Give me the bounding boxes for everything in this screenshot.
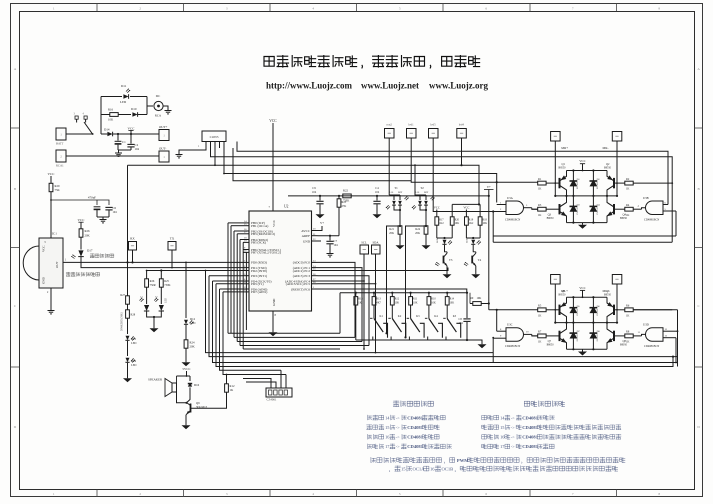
wire ML- to right node — [616, 284, 618, 323]
svg-text:R10: R10 — [431, 298, 436, 301]
connector MR+ box — [551, 132, 561, 142]
frame row ticks right — [695, 127, 704, 129]
rail y165 — [128, 165, 480, 204]
resistor R17 1K2 — [435, 217, 439, 225]
svg-text:15: 15 — [401, 466, 406, 471]
U3B pins — [663, 204, 668, 206]
svg-text:8: 8 — [658, 6, 660, 10]
svg-text:SPEAKER: SPEAKER — [148, 378, 163, 382]
sensor output T1 to bus — [387, 226, 401, 333]
svg-text:http://www.Luojz.com: http://www.Luojz.com — [266, 81, 352, 91]
IR LED pair 1 — [144, 305, 149, 311]
svg-text:CD4081BCN: CD4081BCN — [644, 345, 659, 348]
ground K row — [467, 340, 482, 342]
svg-text:OUT-: OUT- — [159, 147, 166, 151]
svg-text:PD3 (INT1): PD3 (INT1) — [251, 274, 267, 278]
bridge MR bottom rail — [567, 222, 608, 224]
diode D6 upper right — [592, 297, 594, 322]
svg-text:K4: K4 — [434, 315, 438, 318]
svg-text:CD4081: CD4081 — [522, 444, 539, 449]
svg-text:PD2 (INT0): PD2 (INT0) — [251, 269, 267, 273]
svg-text:CD4081: CD4081 — [407, 415, 424, 420]
svg-text:R12: R12 — [395, 298, 400, 301]
svg-text:D12: D12 — [190, 317, 196, 321]
bridge MR collector emitter stubs lower — [566, 196, 568, 203]
resistor R27 photoresistor — [127, 262, 129, 296]
svg-text:->: -> — [396, 425, 400, 430]
enable rail y182 to Q1 base — [411, 181, 538, 183]
title text (Chinese school name) — [264, 57, 274, 67]
note line new 4 — [482, 444, 487, 449]
resistor R24b 20K — [424, 226, 428, 234]
note line old 2 — [367, 425, 372, 430]
svg-text:10K: 10K — [431, 302, 436, 305]
wire led1 down to rail180 — [410, 138, 412, 181]
resistor R15 1K — [355, 293, 357, 296]
svg-text:R21: R21 — [389, 228, 394, 231]
resistor R26b 750R — [145, 279, 149, 287]
ground bridge ML — [582, 349, 584, 351]
svg-text:104: 104 — [459, 322, 464, 325]
resistor R20 10K — [451, 204, 453, 216]
resistor R2 1K — [625, 181, 633, 185]
svg-text:20K: 20K — [415, 232, 420, 235]
sensor output T2 to bus — [406, 226, 427, 337]
ground T2 — [425, 243, 427, 245]
svg-text:5VCC: 5VCC — [182, 367, 190, 371]
LED D18 — [466, 237, 480, 239]
lower bridge R6 right wire — [633, 309, 677, 311]
svg-text:->: -> — [396, 415, 400, 420]
wire AVCC V+ stub — [318, 226, 323, 231]
svg-text:DC: DC — [156, 94, 160, 98]
svg-text:(RESET) PC6: (RESET) PC6 — [291, 287, 310, 291]
phototransistor T3 — [443, 256, 445, 264]
wires DIP block up — [243, 379, 271, 389]
upper loop right vertical U3B pin5 — [675, 211, 677, 236]
K switch top rail — [340, 292, 467, 294]
svg-text:3: 3 — [226, 6, 228, 10]
wire PC4 PC5 to SCL SDA — [318, 280, 365, 282]
bus line y345 — [240, 345, 369, 347]
svg-text:5: 5 — [399, 492, 401, 496]
svg-text:T4: T4 — [478, 258, 482, 262]
svg-text:1K: 1K — [626, 314, 629, 317]
svg-text:C1: C1 — [122, 140, 126, 144]
U3D pin12 down — [674, 338, 676, 363]
svg-text:10K: 10K — [477, 297, 482, 300]
rail y180 — [233, 148, 411, 181]
bridge ML emitter collector stubs upper — [566, 297, 568, 303]
resistor R7 1K lower — [538, 334, 546, 338]
ground CON3 pin1 — [179, 148, 206, 152]
wire PC1 to nest — [318, 268, 363, 342]
svg-text:1K: 1K — [538, 188, 541, 191]
resistor R29 75K — [49, 183, 53, 191]
capacitor C7 104 — [329, 236, 331, 241]
diode D7 lower left — [572, 323, 574, 350]
ground DC jack — [163, 106, 168, 108]
svg-text:R26: R26 — [85, 229, 91, 233]
MCU GND pin8 bottom — [272, 311, 274, 330]
svg-text:1N4148: 1N4148 — [597, 207, 599, 215]
ground C7 — [329, 251, 331, 254]
IR LED pair 2 — [159, 305, 164, 311]
IC1 OUT pin wire — [63, 261, 243, 263]
svg-text:5: 5 — [399, 6, 401, 10]
svg-text:8: 8 — [658, 492, 660, 496]
svg-text:Q7: Q7 — [548, 340, 552, 343]
wire speaker loop — [176, 376, 178, 383]
svg-text:VCC: VCC — [272, 219, 276, 227]
svg-text:VCC: VCC — [78, 218, 86, 222]
svg-text:1K2: 1K2 — [439, 222, 444, 225]
svg-text:LED: LED — [120, 100, 127, 104]
lower right vertical x677 — [677, 310, 679, 367]
svg-text:PB1 (OC1A): PB1 (OC1A) — [251, 224, 268, 228]
svg-text:OUT+: OUT+ — [159, 125, 168, 129]
svg-text:CD4081: CD4081 — [522, 425, 539, 430]
svg-text:1N4148: 1N4148 — [597, 308, 599, 316]
resistor R12 1K base — [226, 375, 228, 385]
svg-text:OC1B: OC1B — [442, 466, 454, 471]
wire loop to DC jack — [147, 105, 153, 107]
bus line y341 — [237, 341, 362, 343]
svg-text:75K: 75K — [55, 188, 61, 192]
svg-text:1K: 1K — [358, 302, 361, 305]
svg-text:C4: C4 — [375, 186, 379, 190]
svg-text:2: 2 — [139, 492, 141, 496]
svg-text:B8550: B8550 — [559, 293, 567, 296]
bottom bus lines — [206, 271, 494, 353]
svg-text:VCC: VCC — [48, 172, 56, 176]
svg-text:RCA: RCA — [155, 114, 162, 118]
svg-text:CD4081: CD4081 — [407, 425, 424, 430]
svg-text:www.Luojz.net: www.Luojz.net — [361, 81, 419, 91]
svg-text:20K: 20K — [85, 234, 91, 238]
connector J1 battery — [56, 128, 66, 140]
svg-text:PWM: PWM — [457, 458, 469, 463]
svg-text:D11: D11 — [121, 84, 127, 88]
note line new 3 — [482, 435, 487, 439]
ground bridge MR — [582, 223, 584, 225]
wire PC2 to T3 — [318, 268, 449, 271]
diode D1 upper left — [572, 171, 574, 196]
svg-text:led4: led4 — [459, 123, 465, 127]
ground T4 — [475, 272, 477, 274]
switch S1 — [75, 116, 78, 119]
wire MCU GND pin22 — [318, 240, 322, 242]
svg-text:U3D: U3D — [643, 323, 650, 327]
resistor R14 10K — [446, 293, 448, 297]
wire speaker rail — [177, 375, 191, 377]
svg-text:B8550: B8550 — [604, 293, 612, 296]
wire D14 to OUT+ — [113, 133, 159, 135]
bus line y337 — [234, 336, 355, 338]
ground T3 — [446, 272, 448, 274]
resistor R12 10K — [391, 293, 393, 297]
svg-text:U3C: U3C — [507, 323, 513, 327]
svg-text:Q3: Q3 — [548, 213, 552, 216]
wire MR+ to left node — [554, 141, 556, 196]
label transmit diode Chinese — [90, 254, 94, 258]
svg-text:D15: D15 — [131, 337, 137, 341]
svg-text:CON3: CON3 — [210, 135, 219, 139]
svg-text:104: 104 — [334, 244, 339, 247]
svg-text:SDA: SDA — [372, 241, 379, 245]
note line new 1 — [482, 415, 487, 419]
resistor R5 1K — [538, 308, 546, 312]
svg-text:CD4081BCN: CD4081BCN — [644, 219, 659, 222]
note summary line 2 — [389, 470, 391, 472]
svg-text:LED: LED — [465, 238, 468, 243]
svg-text:GND: GND — [42, 276, 46, 284]
svg-text:T3: T3 — [449, 258, 453, 262]
svg-text:led1: led1 — [408, 123, 414, 127]
svg-text:BATT: BATT — [56, 142, 64, 146]
LED D17 receive indicator — [78, 250, 83, 256]
U3D pin13 stub to vertical — [668, 330, 678, 332]
note line old 3 — [367, 434, 371, 439]
DIP block CZ4061 — [266, 388, 292, 397]
ground IR pair — [153, 326, 155, 328]
svg-text:1N4148: 1N4148 — [577, 308, 579, 316]
svg-text:CD4081: CD4081 — [407, 435, 424, 440]
bridge MR mid rail — [555, 195, 617, 197]
svg-text:VCC: VCC — [269, 119, 277, 123]
capacitor C6 104 — [105, 206, 112, 208]
svg-text:R11: R11 — [413, 298, 418, 301]
svg-text:16: 16 — [430, 466, 435, 471]
capacitor C2 — [130, 134, 132, 144]
svg-text:1N4148: 1N4148 — [597, 181, 599, 189]
svg-text:1K: 1K — [626, 341, 629, 344]
svg-text:1N4148: 1N4148 — [597, 333, 599, 341]
ground Q9 — [185, 423, 187, 425]
svg-text:led5: led5 — [430, 123, 436, 127]
resistor R22 750K — [343, 194, 351, 198]
svg-text:104: 104 — [375, 191, 380, 194]
bus verticals PB6 PB7 osc — [243, 250, 246, 353]
svg-text:U2: U2 — [284, 205, 289, 209]
wire TX down to PD1 — [171, 250, 173, 268]
svg-text:470uF: 470uF — [88, 196, 96, 200]
connector MR- box — [612, 132, 622, 142]
svg-text:D14: D14 — [104, 128, 110, 132]
resistor R3 1K lower — [538, 207, 546, 211]
svg-text:50WK5B51(50K): 50WK5B51(50K) — [121, 312, 124, 331]
svg-text:R25: R25 — [164, 280, 169, 283]
svg-text:10K: 10K — [395, 302, 400, 305]
resistor R23 27K — [338, 196, 340, 199]
svg-text:R22: R22 — [343, 189, 349, 193]
wire J2 to OUT- box — [66, 155, 159, 157]
svg-text:PB5 (SCK): PB5 (SCK) — [251, 241, 266, 245]
svg-text:4: 4 — [312, 6, 314, 10]
svg-text:B8050: B8050 — [620, 344, 628, 347]
svg-text:VCC: VCC — [128, 127, 136, 131]
svg-text:10K: 10K — [455, 222, 460, 225]
resistor R24 20K — [184, 340, 188, 348]
svg-text:B8550: B8550 — [604, 167, 612, 170]
upper loop bottom line A — [493, 235, 676, 237]
frame column ticks bottom — [96, 490, 98, 498]
svg-text:BPF: BPF — [424, 191, 429, 194]
note header old version — [393, 401, 399, 407]
svg-text:1N4148: 1N4148 — [577, 333, 579, 341]
wire switch to D14 — [101, 133, 107, 135]
svg-text:www.Luojz.org: www.Luojz.org — [429, 81, 488, 91]
svg-text:R24: R24 — [415, 228, 420, 231]
svg-text:VCC: VCC — [434, 206, 440, 210]
connector ML+ box — [551, 275, 561, 285]
wire LED loop left — [100, 97, 102, 135]
bridge MR emitter collector stubs upper — [566, 171, 568, 177]
svg-text:->: -> — [511, 425, 515, 430]
ground T1 — [399, 243, 401, 245]
rail y195 analog — [288, 195, 489, 197]
svg-text:104: 104 — [312, 191, 317, 194]
svg-text:104: 104 — [113, 211, 118, 214]
diode D5 upper left — [572, 297, 574, 322]
svg-text:C9: C9 — [312, 186, 316, 190]
svg-text:(ADC5/SCL) PC5: (ADC5/SCL) PC5 — [286, 282, 311, 286]
svg-text:MR+: MR+ — [561, 146, 568, 150]
bus verticals PB2 PB3 enable — [233, 231, 235, 337]
svg-text:7: 7 — [572, 492, 574, 496]
bus verticals PB4 PB5 — [239, 240, 241, 346]
bridge ML bottom rail — [567, 348, 608, 350]
svg-text:20K: 20K — [190, 345, 196, 349]
note line old 4 — [367, 444, 371, 449]
svg-text:CD4081: CD4081 — [522, 415, 539, 420]
transistor Q7 NPN left — [559, 331, 561, 341]
wire con2 down to T1 — [388, 138, 390, 195]
K rail feed from bus — [339, 293, 341, 334]
svg-text:->: -> — [396, 435, 400, 440]
Q9 collector emitter — [187, 403, 191, 406]
lower bridge left loop vertical — [492, 338, 494, 363]
driver node rail y204 — [452, 203, 480, 205]
upper loop bottom line B — [493, 241, 672, 243]
svg-text:20K: 20K — [389, 232, 394, 235]
svg-text:TX: TX — [170, 237, 175, 241]
svg-text:R13: R13 — [376, 298, 381, 301]
svg-text:AREF: AREF — [302, 234, 311, 238]
svg-text:C7: C7 — [334, 239, 338, 243]
resistor R26 20K upper — [79, 229, 83, 237]
svg-text:2: 2 — [139, 6, 141, 10]
LED D12 — [185, 262, 187, 318]
svg-text:PB3 (MOSI/OC2): PB3 (MOSI/OC2) — [251, 232, 275, 236]
bridge MR top rail — [567, 170, 608, 172]
LED D15 — [126, 336, 130, 341]
U3D pins — [663, 330, 668, 332]
wire 470uF branch — [51, 199, 97, 201]
svg-text:B8050: B8050 — [547, 217, 555, 220]
upper loop left vertical — [492, 212, 494, 243]
transistor Q3 NPN left — [559, 204, 561, 214]
bridge ML collector emitter stubs lower — [566, 323, 568, 330]
svg-text:->: -> — [511, 444, 515, 449]
svg-text:U3B: U3B — [643, 196, 649, 200]
resistor R16 10K in loop — [101, 114, 110, 116]
svg-text:1: 1 — [53, 492, 55, 496]
wire ML+ to left node — [554, 284, 556, 323]
resistor R25 750K — [159, 279, 163, 287]
bus vertical x127 from rail to OUT line — [127, 165, 129, 262]
rail y173 enable — [224, 148, 497, 203]
resistor R19 1K2 — [465, 217, 469, 225]
diode D3 lower left — [572, 196, 574, 223]
ground sensor column — [127, 376, 129, 378]
resistor R10 10K — [428, 293, 430, 297]
svg-text:->: -> — [511, 435, 515, 440]
rail y151 to right bridge — [237, 142, 668, 205]
wire J1 to switch — [66, 133, 93, 135]
svg-text:OUT: OUT — [55, 261, 59, 268]
wire U3A out to R3 — [532, 208, 538, 210]
svg-text:LED: LED — [436, 238, 439, 243]
svg-text:Q9: Q9 — [196, 401, 200, 405]
svg-text:(ADC2) PC2: (ADC2) PC2 — [293, 269, 311, 273]
svg-text:104: 104 — [135, 147, 140, 151]
svg-text:LED: LED — [165, 298, 168, 303]
note line new 2 — [482, 425, 487, 430]
svg-text:D16: D16 — [194, 383, 200, 387]
svg-text:R15: R15 — [358, 298, 363, 301]
svg-text:1K: 1K — [626, 214, 629, 217]
diode D16 flyback — [189, 376, 191, 381]
DC jack J3 RCA — [154, 101, 163, 110]
svg-text:T2: T2 — [420, 186, 424, 190]
svg-text:V+: V+ — [487, 185, 491, 189]
svg-text:6: 6 — [485, 492, 487, 496]
svg-text:R23: R23 — [342, 201, 347, 204]
svg-text:R16: R16 — [108, 108, 114, 112]
resistor R8 1K lower — [625, 334, 633, 338]
capacitor C1 electrolytic — [117, 134, 119, 141]
bus line PB7 reset — [245, 252, 247, 352]
CON3 pin stubs — [205, 142, 207, 149]
diode D8 lower right — [592, 323, 594, 350]
frame row ticks left — [11, 127, 20, 129]
transistor Q5 PNP left — [559, 305, 561, 315]
svg-text:LED: LED — [190, 322, 195, 325]
diode D2 upper right — [592, 171, 594, 196]
svg-text:6: 6 — [485, 6, 487, 10]
svg-text:R14: R14 — [450, 298, 455, 301]
svg-text:B8550: B8550 — [559, 167, 567, 170]
MCU right pin stubs — [312, 230, 318, 232]
svg-text:SCL: SCL — [361, 241, 367, 245]
K switch bottom rail — [356, 339, 467, 341]
svg-text:PD0 (RXD): PD0 (RXD) — [251, 261, 267, 265]
ground D12 column — [185, 360, 187, 362]
svg-text:1N4148: 1N4148 — [577, 181, 579, 189]
svg-text:PB7 (XTAL2/TOSC2): PB7 (XTAL2/TOSC2) — [251, 251, 281, 255]
wire PC6 reset to C8 rail — [318, 289, 467, 293]
svg-text:R28: R28 — [131, 314, 136, 317]
wire IR pair feed — [146, 271, 148, 280]
svg-text:K5: K5 — [453, 315, 457, 318]
connector ML- box — [612, 275, 622, 285]
svg-text:B8050: B8050 — [620, 217, 628, 220]
bus verticals PB pins — [228, 223, 243, 333]
svg-text:(ADC3) PC3: (ADC3) PC3 — [293, 274, 311, 278]
transistor Q1 PNP left — [559, 178, 561, 188]
wire R12 bus tap — [226, 374, 228, 376]
